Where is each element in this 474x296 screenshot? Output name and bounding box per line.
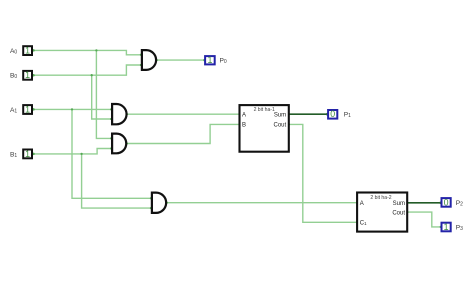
svg-text:C1: C1: [360, 221, 367, 227]
svg-text:1: 1: [25, 149, 30, 159]
node P1 input pin: [326, 113, 329, 116]
node A0 output pin: [32, 49, 35, 52]
svg-text:2 bit ha-2: 2 bit ha-2: [370, 195, 391, 201]
node HA1 pin Sum: [287, 113, 290, 116]
wire A0 branch down to AND3 top input: [96, 50, 111, 138]
node B0 output pin: [32, 74, 35, 77]
svg-text:B1: B1: [10, 151, 17, 158]
junction A0 branch: [95, 49, 97, 51]
AND gate G3 (A0.B1): [112, 134, 126, 154]
svg-text:B: B: [242, 123, 246, 129]
wire AND2 output to HA1 A: [126, 113, 239, 115]
node B1 output pin: [32, 153, 35, 156]
input B0 box: [23, 71, 32, 80]
wire A1 branch down to AND4 top input: [72, 109, 151, 198]
svg-text:1: 1: [444, 222, 449, 232]
wire A1 to AND2 top input: [33, 108, 111, 110]
wire HA2 Cout to P3: [407, 212, 440, 227]
node AND3 output pin: [126, 142, 128, 144]
node HA1 pin A: [239, 113, 242, 116]
node P0 input pin: [203, 59, 206, 62]
output P0 box: [205, 56, 215, 64]
half adder U1 box (2 bit ha-1): [240, 105, 289, 152]
svg-text:1: 1: [25, 70, 30, 80]
AND gate G2 (A1.B0): [112, 104, 126, 124]
wire B0 branch down to AND2 bottom input: [92, 75, 112, 119]
svg-text:P0: P0: [220, 58, 227, 65]
svg-text:A1: A1: [10, 107, 17, 114]
wire HA1 Cout to HA2 C1: [289, 124, 357, 222]
svg-text:1: 1: [25, 46, 30, 56]
svg-text:B0: B0: [10, 73, 17, 80]
svg-text:0: 0: [330, 109, 335, 119]
wire HA2 Sum to P2 (value 0): [407, 202, 440, 204]
node AND1 input pins: [140, 54, 142, 56]
node HA2 pin Cout: [405, 211, 408, 214]
input A0 box: [23, 46, 32, 55]
svg-text:P1: P1: [344, 112, 351, 119]
svg-text:P2: P2: [456, 200, 463, 207]
node AND2 input pins: [110, 108, 112, 110]
input B1 box: [23, 150, 32, 159]
wire B1 branch down to AND4 bottom input: [82, 154, 151, 208]
node AND4 input pins: [150, 197, 152, 199]
svg-text:1: 1: [25, 105, 30, 115]
half adder U2 box (2 bit ha-2): [357, 193, 407, 232]
AND gate G1 (A0.B0 -> P0): [142, 50, 156, 70]
wire AND4 output to HA2 A: [166, 202, 357, 204]
svg-text:A: A: [242, 112, 246, 118]
wire AND3 output to HA1 B: [126, 124, 239, 143]
wire A0 to AND1 top input: [33, 50, 141, 54]
node HA1 pin B: [239, 123, 242, 126]
svg-text:1: 1: [207, 55, 212, 65]
node A1 output pin: [32, 108, 35, 111]
wire B1 to AND3 bottom input: [33, 149, 111, 154]
node AND4 output pin: [166, 202, 168, 204]
node AND1 output pin: [155, 59, 157, 61]
wire AND1 output to P0: [156, 59, 204, 61]
node P2 input pin: [440, 201, 443, 204]
junction A1 branch: [71, 108, 73, 110]
junction B1 branch: [80, 153, 82, 155]
node HA2 pin C1: [356, 221, 359, 224]
svg-text:A: A: [360, 201, 364, 207]
node HA2 pin A: [356, 201, 359, 204]
output P3 box: [442, 223, 451, 232]
node AND3 input pins: [110, 137, 112, 139]
output P2 box: [442, 198, 451, 207]
svg-text:2 bit ha-1: 2 bit ha-1: [254, 107, 275, 113]
wire B0 to AND1 bottom input: [33, 65, 141, 75]
AND gate G4 (A1.B1): [152, 193, 166, 213]
svg-text:Sum: Sum: [393, 201, 405, 207]
svg-text:Cout: Cout: [392, 210, 405, 216]
wire HA1 Sum to P1 (value 0): [289, 113, 327, 115]
svg-text:Sum: Sum: [274, 112, 286, 118]
input A1 box: [23, 105, 32, 114]
svg-text:A0: A0: [10, 48, 17, 55]
svg-text:P3: P3: [456, 224, 463, 231]
junction B0 branch: [91, 74, 93, 76]
node P3 input pin: [440, 226, 443, 229]
node AND2 output pin: [126, 113, 128, 115]
node HA2 pin Sum: [405, 201, 408, 204]
svg-text:Cout: Cout: [274, 123, 287, 129]
output P1 box: [328, 110, 337, 119]
svg-text:0: 0: [444, 197, 449, 207]
node HA1 pin Cout: [287, 123, 290, 126]
